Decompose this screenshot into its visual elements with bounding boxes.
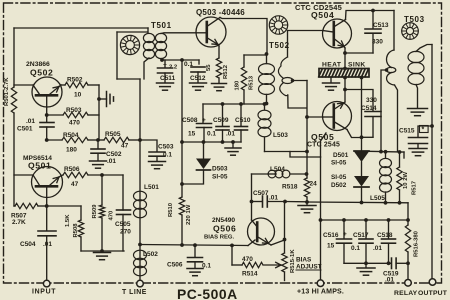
wire T501 sec top to Q503 base — [161, 32, 196, 35]
svg-text:OUTPUT: OUTPUT — [418, 290, 448, 297]
transformer T501 primary — [143, 33, 154, 42]
resistor R507 — [14, 205, 15, 207]
svg-text:R505: R505 — [105, 131, 121, 138]
inductor L503 — [264, 104, 266, 110]
node L505 top — [384, 150, 388, 154]
node T502 top — [265, 52, 269, 56]
wire feed y104 — [203, 103, 265, 105]
node C518 top — [387, 218, 391, 222]
node L504/R518 — [305, 172, 309, 176]
node C507 right — [283, 200, 287, 204]
wire Q502 emitter out — [61, 84, 65, 86]
resistor R516 — [405, 225, 410, 252]
ground R508/R509 — [94, 252, 111, 254]
node C516 top — [342, 218, 346, 222]
resistor R502 — [65, 82, 88, 87]
svg-text:INPUT: INPUT — [32, 289, 56, 296]
transistor Q505 — [323, 102, 362, 138]
wire R515 bottom — [284, 272, 286, 281]
resistor R508 — [78, 220, 83, 237]
svg-text:SI-05: SI-05 — [331, 160, 347, 167]
terminal +13 — [317, 280, 324, 287]
node base wire c — [230, 244, 234, 248]
resistor R512 — [216, 58, 221, 78]
svg-text:R508: R508 — [73, 223, 79, 238]
svg-text:.01: .01 — [43, 241, 52, 248]
wire R509 top — [101, 175, 103, 205]
svg-text:C506: C506 — [167, 262, 183, 269]
svg-text:55: 55 — [206, 64, 212, 71]
node D503/rail — [180, 182, 184, 186]
svg-text:T501: T501 — [151, 21, 172, 30]
svg-text:470: 470 — [109, 210, 115, 221]
capacitor C506 — [194, 245, 196, 257]
wire L503 to rail — [265, 151, 307, 153]
svg-text:C501: C501 — [17, 126, 33, 133]
wire tap to rail — [293, 80, 308, 82]
wire T502 sec top to Q504 base — [288, 31, 324, 58]
wire OUTPUT rail — [431, 45, 433, 280]
wire bypass rail — [181, 60, 183, 197]
svg-text:0.1: 0.1 — [351, 245, 360, 252]
svg-text:Q504: Q504 — [311, 10, 334, 20]
node rail y151 — [305, 150, 309, 154]
svg-text:PC-500A: PC-500A — [177, 286, 238, 300]
svg-text:ADJUST: ADJUST — [296, 264, 322, 271]
svg-text:C502: C502 — [106, 151, 122, 158]
wire tap drop — [381, 70, 387, 152]
svg-text:D501: D501 — [333, 152, 349, 159]
node +13/bus — [319, 218, 323, 222]
capacitor C514 — [365, 111, 381, 113]
svg-text:.01: .01 — [385, 277, 394, 284]
wire Q505 base — [307, 116, 323, 118]
wire R518 bottom — [306, 197, 308, 202]
node Q502 gnd — [97, 97, 101, 101]
wire T501 sec bottom — [161, 59, 162, 61]
wire out bus y151 — [362, 150, 405, 153]
svg-text:180: 180 — [66, 147, 77, 154]
node C507 left — [250, 200, 254, 204]
transformer T503 right winding — [408, 51, 424, 62]
node gnd bottom-left — [100, 249, 104, 253]
svg-text:C510: C510 — [235, 117, 251, 124]
svg-text:15: 15 — [327, 243, 335, 250]
svg-text:RELAY: RELAY — [394, 290, 418, 297]
svg-text:330: 330 — [366, 97, 377, 104]
wire T503 right bottom — [416, 85, 418, 108]
wire Q503 emitter — [218, 46, 220, 58]
svg-text:D502: D502 — [331, 182, 347, 189]
wire C503 stub — [140, 140, 157, 152]
node C518 bottom — [387, 261, 391, 265]
resistor R513 — [243, 55, 245, 67]
inductor L505 — [385, 152, 387, 158]
svg-text:SINK: SINK — [348, 62, 366, 69]
node C509 feed — [221, 102, 225, 106]
ground R518 — [306, 202, 308, 205]
capacitor C517 — [365, 220, 367, 239]
transistor Q502 — [32, 77, 62, 115]
svg-text:.01: .01 — [226, 131, 235, 138]
resistor R504 — [47, 139, 62, 141]
node C508 bottom — [202, 140, 206, 144]
transistor Q504 — [323, 19, 352, 48]
capacitor C507 — [252, 201, 263, 203]
svg-text:.01: .01 — [107, 158, 116, 165]
wire +13 rail — [320, 157, 322, 281]
node T503 tap — [385, 68, 389, 72]
capacitor C513 — [372, 11, 374, 29]
wire Q501 emitter out — [62, 174, 64, 177]
svg-text:270: 270 — [120, 229, 131, 236]
toroid core T503 — [402, 23, 419, 40]
wire diode stub — [361, 138, 363, 152]
wire Q503 collector — [220, 18, 267, 55]
node T-rail junction — [138, 243, 142, 247]
svg-text:0.1: 0.1 — [207, 131, 216, 138]
node heatsink top — [343, 67, 347, 71]
svg-text:Q501: Q501 — [28, 161, 51, 171]
node C515 — [430, 124, 434, 128]
wire Q504 emitter — [344, 48, 346, 68]
wire R508 bottom — [80, 237, 82, 251]
wire cap feed — [162, 59, 199, 61]
node C513 top — [371, 9, 375, 13]
ground C502 — [90, 160, 107, 162]
resistor R518 — [304, 178, 309, 197]
inductor L501 — [134, 191, 147, 201]
svg-text:T LINE: T LINE — [122, 289, 147, 296]
svg-text:*: * — [422, 127, 425, 134]
wire R516 bottom — [407, 252, 409, 279]
svg-text:C514: C514 — [361, 105, 377, 112]
node Q505 base — [305, 115, 309, 119]
svg-text:D503: D503 — [212, 166, 228, 173]
svg-text:C511: C511 — [160, 75, 176, 82]
svg-text:C518: C518 — [377, 232, 393, 239]
svg-text:180: 180 — [235, 80, 241, 91]
wire T501 primary bottom — [144, 58, 149, 79]
svg-text:R506: R506 — [64, 166, 80, 173]
node R517 top — [398, 150, 402, 154]
svg-text:.01: .01 — [26, 118, 35, 125]
node C511 — [160, 58, 164, 62]
terminal T LINE — [137, 280, 144, 287]
svg-text:15: 15 — [188, 131, 196, 138]
capacitor C510 — [240, 104, 242, 126]
wire Q506 emitter — [269, 244, 272, 246]
wire L504 drop — [251, 174, 253, 220]
node rail/caps — [180, 140, 184, 144]
node Q501 emitter — [45, 204, 49, 208]
svg-text:CTC 2545: CTC 2545 — [307, 142, 340, 149]
resistor R505 — [98, 139, 104, 141]
ground C511 — [157, 82, 174, 84]
svg-text:R503: R503 — [66, 107, 82, 114]
ground output filter — [365, 263, 367, 267]
node tap/bus — [379, 150, 383, 154]
wire T502 sec bottom — [288, 95, 306, 108]
node Q502 emitter — [45, 113, 49, 117]
potentiometer R515 wiper — [264, 264, 281, 266]
svg-text:10: 10 — [74, 92, 82, 99]
diode D501 — [354, 150, 369, 152]
svg-text:10 2W: 10 2W — [403, 172, 409, 189]
svg-text:C505: C505 — [115, 221, 131, 228]
svg-text:R516-380: R516-380 — [414, 230, 420, 257]
wire R512 gnd — [218, 78, 220, 83]
capacitor C515 — [418, 126, 432, 137]
svg-text:Q505: Q505 — [311, 132, 334, 142]
node R517 bottom — [398, 201, 402, 205]
wire D503 bottom — [182, 170, 204, 184]
wire base rail upper — [13, 28, 15, 87]
wire R510 bottom — [181, 215, 183, 246]
svg-text:0.1: 0.1 — [163, 152, 172, 159]
wire right node vertical — [98, 85, 100, 140]
wire T501 left loop — [147, 28, 149, 33]
svg-text:Q503 -40446: Q503 -40446 — [196, 8, 245, 17]
capacitor C505 — [117, 209, 131, 211]
node bypass rail top — [180, 58, 184, 62]
svg-text:HEAT: HEAT — [322, 62, 342, 69]
capacitor C516 — [343, 220, 345, 239]
wire jog +13 — [290, 152, 321, 158]
ground caps row — [232, 142, 234, 147]
transistor Q501 — [32, 167, 63, 207]
capacitor C518 — [388, 220, 390, 239]
node T502 bottom — [265, 102, 269, 106]
svg-text:1.5K: 1.5K — [65, 214, 71, 227]
wire between diodes — [361, 162, 363, 176]
wire Q505 lower-left — [321, 133, 327, 157]
wire top rail — [14, 27, 148, 29]
transformer T502 primary — [266, 54, 268, 64]
resistor R501 — [11, 87, 16, 113]
terminal RELAY — [405, 280, 412, 287]
svg-text:C507: C507 — [253, 190, 269, 197]
svg-text:.01: .01 — [373, 245, 382, 252]
wire caps bottom — [182, 141, 241, 143]
svg-text:Q502: Q502 — [30, 68, 53, 78]
svg-text:R514: R514 — [242, 271, 258, 278]
capacitor C509 — [222, 104, 224, 126]
svg-text:L504: L504 — [270, 166, 285, 173]
node R505/T-rail — [138, 138, 142, 142]
node C514 feed — [343, 88, 347, 92]
svg-text:T503: T503 — [404, 15, 425, 24]
svg-text:C516: C516 — [323, 232, 339, 239]
heat sink — [319, 69, 369, 78]
svg-text:R513: R513 — [249, 75, 255, 90]
wire D502 bottom — [361, 187, 363, 203]
diode D502 — [354, 176, 369, 187]
svg-text:R501-2.7K: R501-2.7K — [4, 77, 10, 106]
svg-text:47: 47 — [71, 181, 79, 188]
svg-text:330: 330 — [372, 39, 383, 46]
wire Q505 collector — [344, 77, 346, 102]
capacitor C512 — [198, 60, 200, 64]
node C517 top — [364, 218, 368, 222]
wire T LINE rail — [139, 79, 141, 281]
wire C514 bottom link — [362, 136, 374, 138]
svg-text:R512: R512 — [223, 64, 229, 79]
capacitor C508 — [202, 104, 204, 123]
toroid core T502 — [269, 16, 287, 34]
node R504/R505 — [96, 138, 100, 142]
ground C506 — [187, 268, 203, 270]
wire emitter drop — [284, 202, 286, 254]
svg-text:47: 47 — [121, 143, 129, 150]
svg-text:C515: C515 — [399, 128, 415, 135]
svg-text:470: 470 — [69, 120, 80, 127]
node emitter — [283, 238, 287, 242]
terminal INPUT — [43, 280, 50, 287]
wire T503 left top — [393, 11, 395, 51]
inductor L504 — [252, 173, 269, 175]
toroid core T501 — [120, 35, 139, 54]
svg-text:R510: R510 — [168, 202, 174, 217]
svg-text:L503: L503 — [273, 132, 288, 139]
svg-text:220 1W: 220 1W — [186, 204, 192, 225]
ground (right-facing) at Q502 node — [106, 92, 108, 107]
wire R509 bottom — [101, 218, 103, 251]
svg-text:.01: .01 — [269, 195, 278, 202]
node diode top — [360, 135, 364, 139]
resistor R506 — [63, 172, 88, 177]
wire emitter to R508 — [47, 205, 81, 207]
wire heatsink gnd stub — [330, 77, 332, 82]
ground C515 — [409, 148, 427, 150]
node emitter/C513 — [343, 51, 347, 55]
svg-text:Q506: Q506 — [213, 224, 236, 234]
svg-text:+: + — [343, 231, 347, 238]
ground R512 — [212, 83, 227, 85]
wire ground stub — [99, 98, 107, 100]
capacitor C501 — [46, 115, 48, 122]
svg-text:R504: R504 — [63, 132, 79, 139]
resistor R515 — [282, 253, 287, 272]
node R509 top — [100, 173, 104, 177]
node base wire b — [193, 243, 197, 247]
svg-text:+: + — [202, 117, 206, 124]
node D502/wire — [360, 201, 364, 205]
transformer T501 secondary — [155, 33, 166, 42]
svg-text:L501: L501 — [144, 184, 159, 191]
svg-text:R502: R502 — [67, 77, 83, 84]
capacitor C519 — [391, 258, 393, 268]
capacitor C502 — [97, 140, 99, 149]
node L503 feed — [263, 102, 267, 106]
transformer T503 left winding — [386, 50, 394, 85]
svg-text:T502: T502 — [269, 41, 290, 50]
wire Q501 base — [14, 174, 33, 176]
wire Q504 collector top — [346, 11, 395, 20]
transformer T502 secondary — [278, 57, 287, 96]
resistor R517 — [399, 152, 401, 167]
svg-text:SI-05: SI-05 — [212, 174, 228, 181]
svg-text:2.2: 2.2 — [169, 65, 178, 71]
svg-text:C513: C513 — [373, 22, 389, 29]
resistor R509 — [99, 205, 104, 218]
svg-text:+: + — [163, 62, 167, 69]
svg-text:C509: C509 — [213, 117, 229, 124]
wire bus y220 — [321, 219, 409, 221]
svg-text:0.1: 0.1 — [184, 61, 193, 68]
capacitor C504 — [46, 206, 48, 231]
ground heatsink — [323, 82, 340, 84]
resistor R514 — [231, 245, 233, 265]
svg-text:24: 24 — [310, 181, 318, 188]
wire heatsink right drop — [361, 77, 363, 137]
wire C507 to R518 node — [285, 201, 307, 203]
wire to Q506 base — [140, 245, 248, 246]
terminal OUTPUT — [429, 279, 436, 286]
node R504 left — [45, 138, 49, 142]
svg-text:2.7K: 2.7K — [12, 219, 26, 226]
node L505 bottom — [384, 201, 388, 205]
capacitor C511 — [164, 60, 166, 68]
node heatsink right — [360, 76, 364, 80]
wire bus y202 — [307, 201, 408, 204]
svg-text:R509: R509 — [92, 204, 98, 219]
svg-text:C508: C508 — [182, 117, 198, 124]
wire C505 top — [122, 175, 124, 210]
wire R513 top — [244, 54, 267, 56]
ground T503 — [408, 108, 428, 110]
svg-text:L502: L502 — [143, 251, 158, 258]
svg-text:+13 HI AMPS.: +13 HI AMPS. — [297, 289, 344, 296]
resistor R503 — [47, 114, 63, 116]
svg-text:C503: C503 — [158, 144, 174, 151]
node C509 bottom — [221, 140, 225, 144]
ground C503 — [149, 161, 166, 163]
inductor L502 — [134, 250, 147, 260]
node T502 center tap — [291, 79, 295, 83]
svg-text:C504: C504 — [20, 241, 36, 248]
svg-text:R517: R517 — [412, 180, 418, 195]
svg-text:BIAS REG.: BIAS REG. — [204, 235, 234, 241]
node R516/bus — [406, 218, 410, 222]
transistor Q503 — [196, 17, 226, 47]
svg-text:470: 470 — [242, 256, 253, 263]
node relay — [406, 261, 410, 265]
wire C513 bottom link — [345, 52, 373, 54]
node R518/gnd — [305, 200, 309, 204]
wire base rail lower — [13, 113, 15, 206]
svg-text:SI-05: SI-05 — [331, 174, 347, 181]
wire bus y263 — [344, 262, 391, 264]
svg-text:BIAS: BIAS — [296, 257, 312, 264]
capacitor C503 — [149, 151, 165, 153]
svg-text:C517: C517 — [353, 232, 369, 239]
wire C514 top — [345, 90, 373, 112]
node base wire a — [180, 243, 184, 247]
ground C512 — [190, 82, 207, 84]
resistor R510 — [179, 197, 184, 215]
wire T503 left bottom — [395, 85, 398, 152]
diode D503 — [203, 142, 205, 158]
wire R516 rail — [407, 203, 409, 225]
svg-text:R518: R518 — [282, 184, 298, 191]
node heatsink mid — [343, 76, 347, 80]
node C517 bottom — [364, 261, 368, 265]
svg-text:C512: C512 — [190, 75, 206, 82]
svg-text:L505: L505 — [370, 195, 385, 202]
wire Q502 base — [14, 84, 33, 86]
node C510 feed — [239, 102, 243, 106]
